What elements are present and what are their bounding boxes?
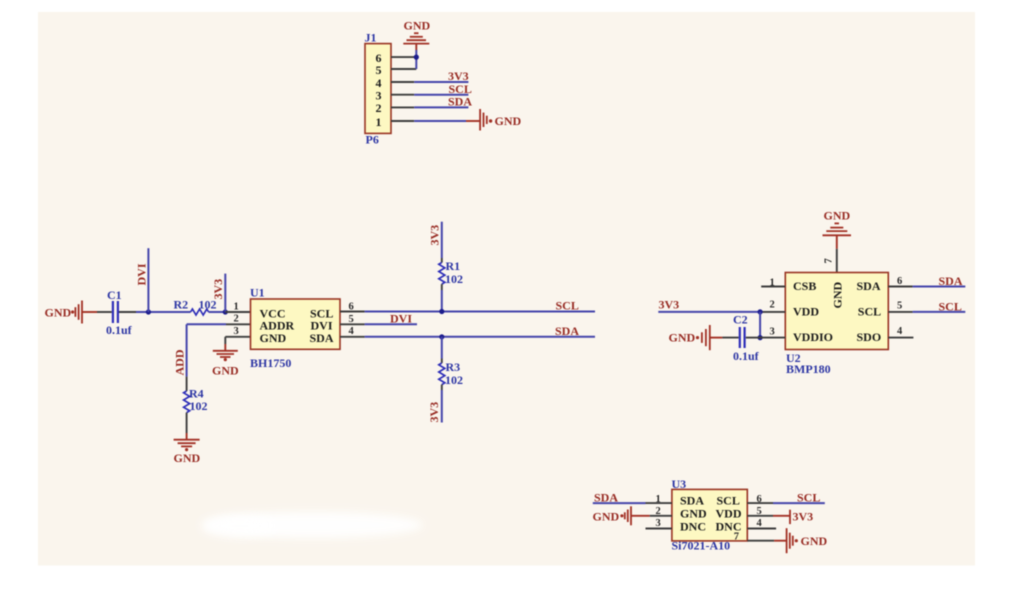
svg-text:SDA: SDA (857, 279, 881, 293)
ground symbol below U1 pin3 (213, 351, 238, 357)
wire ADD vertical (186, 324, 188, 376)
J1 pin 6 stub (391, 56, 416, 58)
svg-text:R3: R3 (446, 360, 461, 374)
wire SCL (365, 311, 595, 313)
ground bar symbol left of U3 (620, 514, 623, 517)
U3 pin 5 stub (747, 515, 773, 517)
svg-text:GND: GND (801, 534, 828, 548)
wire 3V3 to U2 pin 2 (658, 311, 760, 313)
U3 pin 3 stub (646, 528, 672, 530)
svg-text:GND: GND (831, 282, 845, 309)
svg-text:SCL: SCL (858, 304, 881, 318)
U3 pin 2 stub (650, 515, 672, 517)
svg-text:DNC: DNC (680, 520, 706, 534)
wire SCL from pin 3 (414, 94, 468, 96)
svg-text:GND: GND (680, 506, 707, 520)
svg-text:2: 2 (656, 506, 661, 517)
wire gnd-C2 (722, 337, 738, 339)
svg-text:VDD: VDD (793, 304, 819, 318)
wire C1 to junction (119, 311, 136, 313)
U2 pin 3 stub (760, 337, 785, 339)
gnd stem U2 top (836, 235, 838, 249)
U3 pin 6 stub (747, 502, 773, 504)
U3 pin 1 stub (646, 502, 672, 504)
op-amp U1 box (251, 299, 341, 349)
svg-text:5: 5 (757, 506, 762, 517)
svg-text:SDA: SDA (680, 493, 704, 507)
svg-text:SDA: SDA (555, 324, 579, 338)
wire R3 vertical (441, 337, 443, 359)
svg-text:DVI: DVI (390, 311, 412, 325)
U1 pin 2 wire (226, 323, 251, 325)
svg-text:5: 5 (349, 314, 354, 325)
capacitor C1 (112, 301, 114, 323)
svg-text:4: 4 (897, 326, 903, 337)
ground symbol above U2 (823, 223, 852, 235)
wire vdd-vddio vertical (759, 312, 761, 338)
svg-text:BMP180: BMP180 (786, 362, 831, 376)
svg-text:1: 1 (770, 277, 775, 288)
svg-text:SCL: SCL (556, 299, 579, 313)
svg-text:102: 102 (445, 272, 463, 286)
svg-text:CSB: CSB (793, 279, 816, 293)
svg-text:102: 102 (190, 399, 208, 413)
svg-text:GND: GND (212, 364, 239, 378)
svg-text:1: 1 (234, 301, 239, 312)
svg-text:GND: GND (669, 331, 696, 345)
gnd lead U3 pin2 (631, 515, 650, 517)
svg-text:2: 2 (234, 314, 239, 325)
ground bar symbol right of J1 (480, 109, 487, 131)
watermark smear (203, 512, 423, 538)
svg-text:5: 5 (897, 300, 902, 311)
U2 pin 6 stub (888, 286, 912, 288)
resistor R4 (186, 377, 188, 391)
IC U2 box (785, 273, 888, 350)
svg-text:U1: U1 (250, 286, 265, 300)
J1 pin 3 stub (391, 94, 414, 96)
svg-text:ADD: ADD (173, 349, 187, 375)
svg-text:BH1750: BH1750 (250, 356, 291, 370)
svg-text:7: 7 (824, 258, 835, 263)
wire SDA (365, 336, 595, 338)
svg-text:5: 5 (376, 63, 382, 77)
junction pin6/gnd (414, 55, 419, 60)
svg-text:GND: GND (174, 451, 201, 465)
svg-text:J1: J1 (365, 31, 377, 45)
J1 pin 2 stub (391, 106, 414, 108)
junction SDA/R3 (439, 334, 444, 339)
svg-text:3V3: 3V3 (427, 402, 441, 423)
wire R2 to junction 3V3 (209, 311, 226, 313)
wire SDA right (913, 286, 966, 288)
svg-text:R2: R2 (174, 298, 189, 312)
U1 pin 4 stub (340, 336, 365, 338)
resistor R2 (191, 309, 209, 315)
U2 pin 4 stub (888, 337, 913, 339)
J1 pin 5 stub (391, 68, 416, 70)
svg-text:2: 2 (770, 300, 775, 311)
svg-text:3V3: 3V3 (448, 69, 469, 83)
wire SCL right (913, 311, 966, 313)
junction SCL/R1 (439, 309, 444, 314)
svg-text:3V3: 3V3 (428, 225, 442, 246)
svg-text:Si7021-A10: Si7021-A10 (672, 539, 731, 553)
svg-text:U3: U3 (672, 477, 687, 491)
U1 pin 5 stub (340, 323, 365, 325)
U2 pin 1 stub (761, 286, 785, 288)
ground bar symbol left of C2 (696, 336, 699, 339)
U3 pin 7 stub (747, 540, 774, 542)
gnd stem R4 (186, 433, 188, 440)
svg-text:GND: GND (824, 209, 851, 223)
connector J1 box (365, 44, 391, 134)
node 3V3 junction (223, 309, 228, 314)
svg-text:6: 6 (897, 276, 902, 287)
ground symbol below R4 (174, 440, 200, 447)
svg-text:GND: GND (495, 114, 522, 128)
svg-text:3: 3 (234, 326, 239, 337)
svg-text:SCL: SCL (717, 493, 740, 507)
svg-text:1: 1 (656, 494, 661, 505)
svg-text:102: 102 (445, 373, 463, 387)
gnd stem J1 (415, 44, 417, 50)
gnd lead to C2 (710, 337, 723, 339)
resistor R1 (439, 263, 445, 285)
svg-text:SCL: SCL (939, 300, 962, 314)
svg-text:VDD: VDD (716, 506, 742, 520)
wire DVI vertical (147, 248, 149, 312)
resistor R3 (439, 363, 445, 385)
wire gnd from pin 1 (414, 120, 466, 122)
U3 pin 4 stub (747, 528, 776, 530)
IC U3 box (672, 489, 747, 541)
svg-text:GND: GND (404, 19, 431, 33)
svg-text:0.1uf: 0.1uf (106, 323, 133, 337)
wire 3V3 power bar (773, 515, 790, 517)
wire C2 to junction (746, 337, 760, 339)
svg-text:SDA: SDA (939, 274, 963, 288)
svg-text:VDDIO: VDDIO (793, 330, 833, 344)
svg-text:SDA: SDA (310, 331, 334, 345)
svg-text:3V3: 3V3 (793, 509, 814, 523)
gnd stem U1 pin3 (224, 344, 226, 351)
wire 3V3 from pin 4 (414, 81, 468, 83)
U1 pin 3 wire (225, 336, 250, 338)
U2 pin 5 stub (888, 311, 912, 313)
svg-text:C2: C2 (733, 312, 748, 326)
svg-text:3: 3 (770, 327, 775, 338)
J1 pin 1 stub (391, 120, 414, 122)
svg-text:6: 6 (349, 301, 354, 312)
svg-text:DVI: DVI (135, 263, 149, 285)
J1 pin 4 stub (391, 81, 414, 83)
U2 pin 7 stub (836, 249, 838, 273)
svg-text:1: 1 (376, 115, 382, 129)
wire pins 5-6 vertical (415, 50, 417, 69)
wire SCL right (773, 502, 825, 504)
svg-text:0.1uf: 0.1uf (733, 349, 760, 363)
svg-text:GND: GND (260, 331, 287, 345)
svg-text:7: 7 (734, 532, 739, 543)
svg-text:SCL: SCL (797, 491, 820, 505)
wire DVI from pin 5 (365, 323, 417, 325)
junction U2 vdd (758, 309, 763, 314)
svg-text:SDA: SDA (594, 491, 618, 505)
svg-text:3V3: 3V3 (211, 279, 225, 300)
ground symbol above J1 (403, 33, 429, 43)
svg-text:GND: GND (593, 510, 620, 524)
gnd lead to C1 (82, 311, 97, 313)
svg-text:4: 4 (349, 326, 355, 337)
wire SDA left (593, 502, 646, 504)
svg-text:3V3: 3V3 (659, 297, 680, 311)
ground bar symbol left of C1 (71, 310, 74, 313)
U1 pin 6 stub (340, 311, 365, 313)
svg-text:GND: GND (45, 306, 72, 320)
svg-text:P6: P6 (366, 133, 379, 147)
svg-text:SDA: SDA (448, 95, 472, 109)
node DVI junction (146, 309, 151, 314)
gnd lead U3 pin7 (774, 540, 787, 542)
capacitor C2 (739, 327, 741, 348)
wire 3V3 vertical (224, 274, 226, 312)
gnd lead J1 pin1 (466, 120, 480, 122)
ground bar symbol right of U3 (787, 528, 793, 553)
U1 pin 1 stub (225, 311, 250, 313)
svg-text:4: 4 (757, 518, 763, 529)
svg-text:C1: C1 (107, 288, 122, 302)
svg-text:6: 6 (757, 494, 762, 505)
wire gnd-C1 (97, 311, 112, 313)
junction U2 vddio (758, 335, 763, 340)
wire R1 vertical (441, 222, 443, 258)
svg-text:3: 3 (656, 518, 661, 529)
wire SDA from pin 2 (414, 106, 468, 108)
svg-text:2: 2 (376, 101, 382, 115)
svg-text:SDO: SDO (857, 330, 882, 344)
